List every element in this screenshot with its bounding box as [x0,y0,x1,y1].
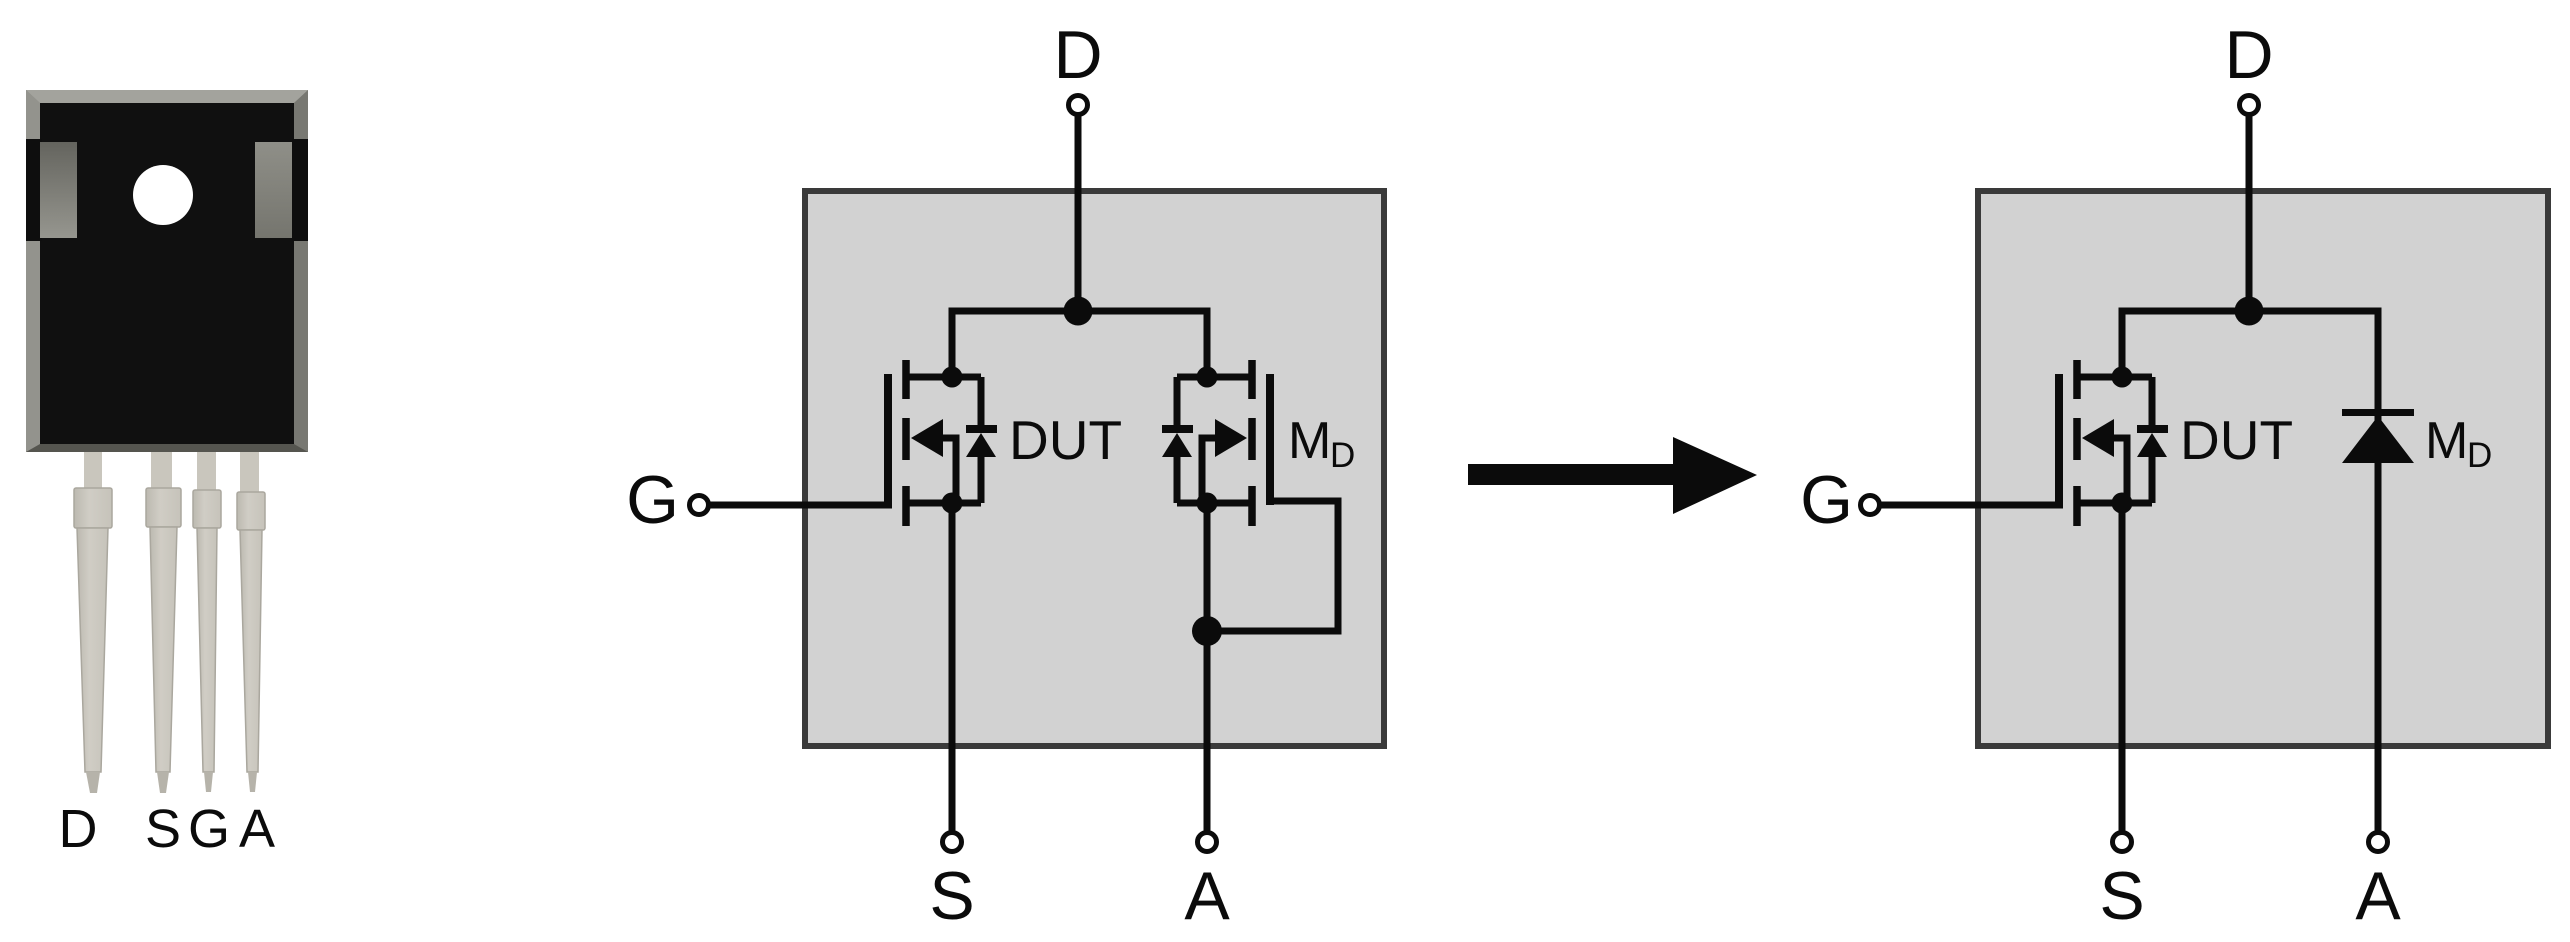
transformation arrow [1468,437,1757,514]
package body (TO-247 molded case) [26,90,308,452]
transistor MD (middle, mirrored) [1162,360,1270,526]
wire D terminal to drain bus (middle) [1075,116,1082,311]
DUT source node dot [942,493,963,514]
pin A lead [237,452,265,792]
DUT body diode [966,377,997,503]
terminal A (middle) [1198,833,1217,852]
DUT source loop wire (right) [2077,500,2152,507]
terminal G (right) [1861,496,1880,515]
DUT gate electrode bar (right) [2055,374,2063,505]
wire DUT source to S terminal (right) [2119,503,2126,831]
wire drain bus (right) [2122,311,2378,405]
wire drain bus (middle) [952,311,1207,377]
package mounting hole [133,165,193,225]
junction node D (middle) [1064,297,1093,326]
svg-text:A: A [2355,858,2401,934]
terminal A (right) [2369,833,2388,852]
svg-text:DUT: DUT [1009,409,1122,471]
wire G terminal to gate (middle) [710,502,892,509]
terminal G (middle) [690,496,709,515]
svg-text:S: S [2099,858,2144,934]
wire D terminal to drain bus (right) [2246,116,2253,311]
svg-text:S: S [929,858,974,934]
package side notch left [26,139,77,241]
MD source loop wire [1177,500,1252,507]
MD body diode [1162,377,1193,503]
terminal D (middle) [1069,96,1088,115]
svg-text:D: D [1330,436,1355,475]
DUT body arrow (right) [2082,419,2127,503]
DUT channel segments [902,360,910,526]
svg-text:D: D [2467,436,2492,475]
wire DUT source to S terminal (middle) [949,503,956,831]
pin D lead [74,452,112,793]
svg-text:G: G [626,462,679,538]
package outline box (middle schematic) [805,191,1384,746]
DUT body arrow [911,419,956,503]
terminal S (right) [2113,833,2132,852]
wire MD gate to source node (middle) [1207,501,1338,631]
DUT channel segments (right) [2073,360,2081,526]
wire G terminal to gate (right) [1881,502,2063,509]
junction node D (right) [2235,297,2264,326]
svg-text:M: M [2425,412,2468,470]
package side notch right [255,139,308,241]
svg-text:D: D [1053,17,1102,93]
svg-text:DUT: DUT [2180,409,2293,471]
MD source node dot [1197,493,1218,514]
diode MD (right) [2342,405,2414,831]
svg-text:M: M [1288,412,1331,470]
MD body arrow [1202,419,1247,503]
pin G lead [193,452,221,792]
pin S lead [146,452,181,793]
label MD (right) [2425,412,2492,475]
DUT drain loop wire [906,374,981,381]
MD gate electrode bar [1266,374,1274,505]
DUT drain node dot [942,367,963,388]
svg-text:G: G [188,799,230,859]
MD drain node dot [1197,367,1218,388]
svg-text:A: A [1184,858,1230,934]
svg-text:D: D [2224,17,2273,93]
transistor DUT (right) [2059,360,2168,526]
package outline box (right schematic) [1978,191,2548,746]
svg-text:D: D [59,799,98,859]
MD drain loop wire [1177,374,1252,381]
DUT drain node dot (right) [2112,367,2133,388]
terminal S (middle) [943,833,962,852]
DUT body diode (right) [2137,377,2168,503]
label MD (middle) [1288,412,1355,475]
MD channel segments [1248,360,1256,526]
DUT source node dot (right) [2112,493,2133,514]
terminal D (right) [2240,96,2259,115]
svg-text:S: S [145,799,181,859]
svg-text:G: G [1800,462,1853,538]
DUT gate electrode bar [884,374,892,505]
wire MD source to A terminal (middle) [1204,503,1211,831]
transistor DUT (middle) [888,360,997,526]
svg-text:A: A [239,799,275,859]
DUT drain loop wire (right) [2077,374,2152,381]
junction node A (middle) [1192,616,1222,646]
DUT source loop wire [906,500,981,507]
